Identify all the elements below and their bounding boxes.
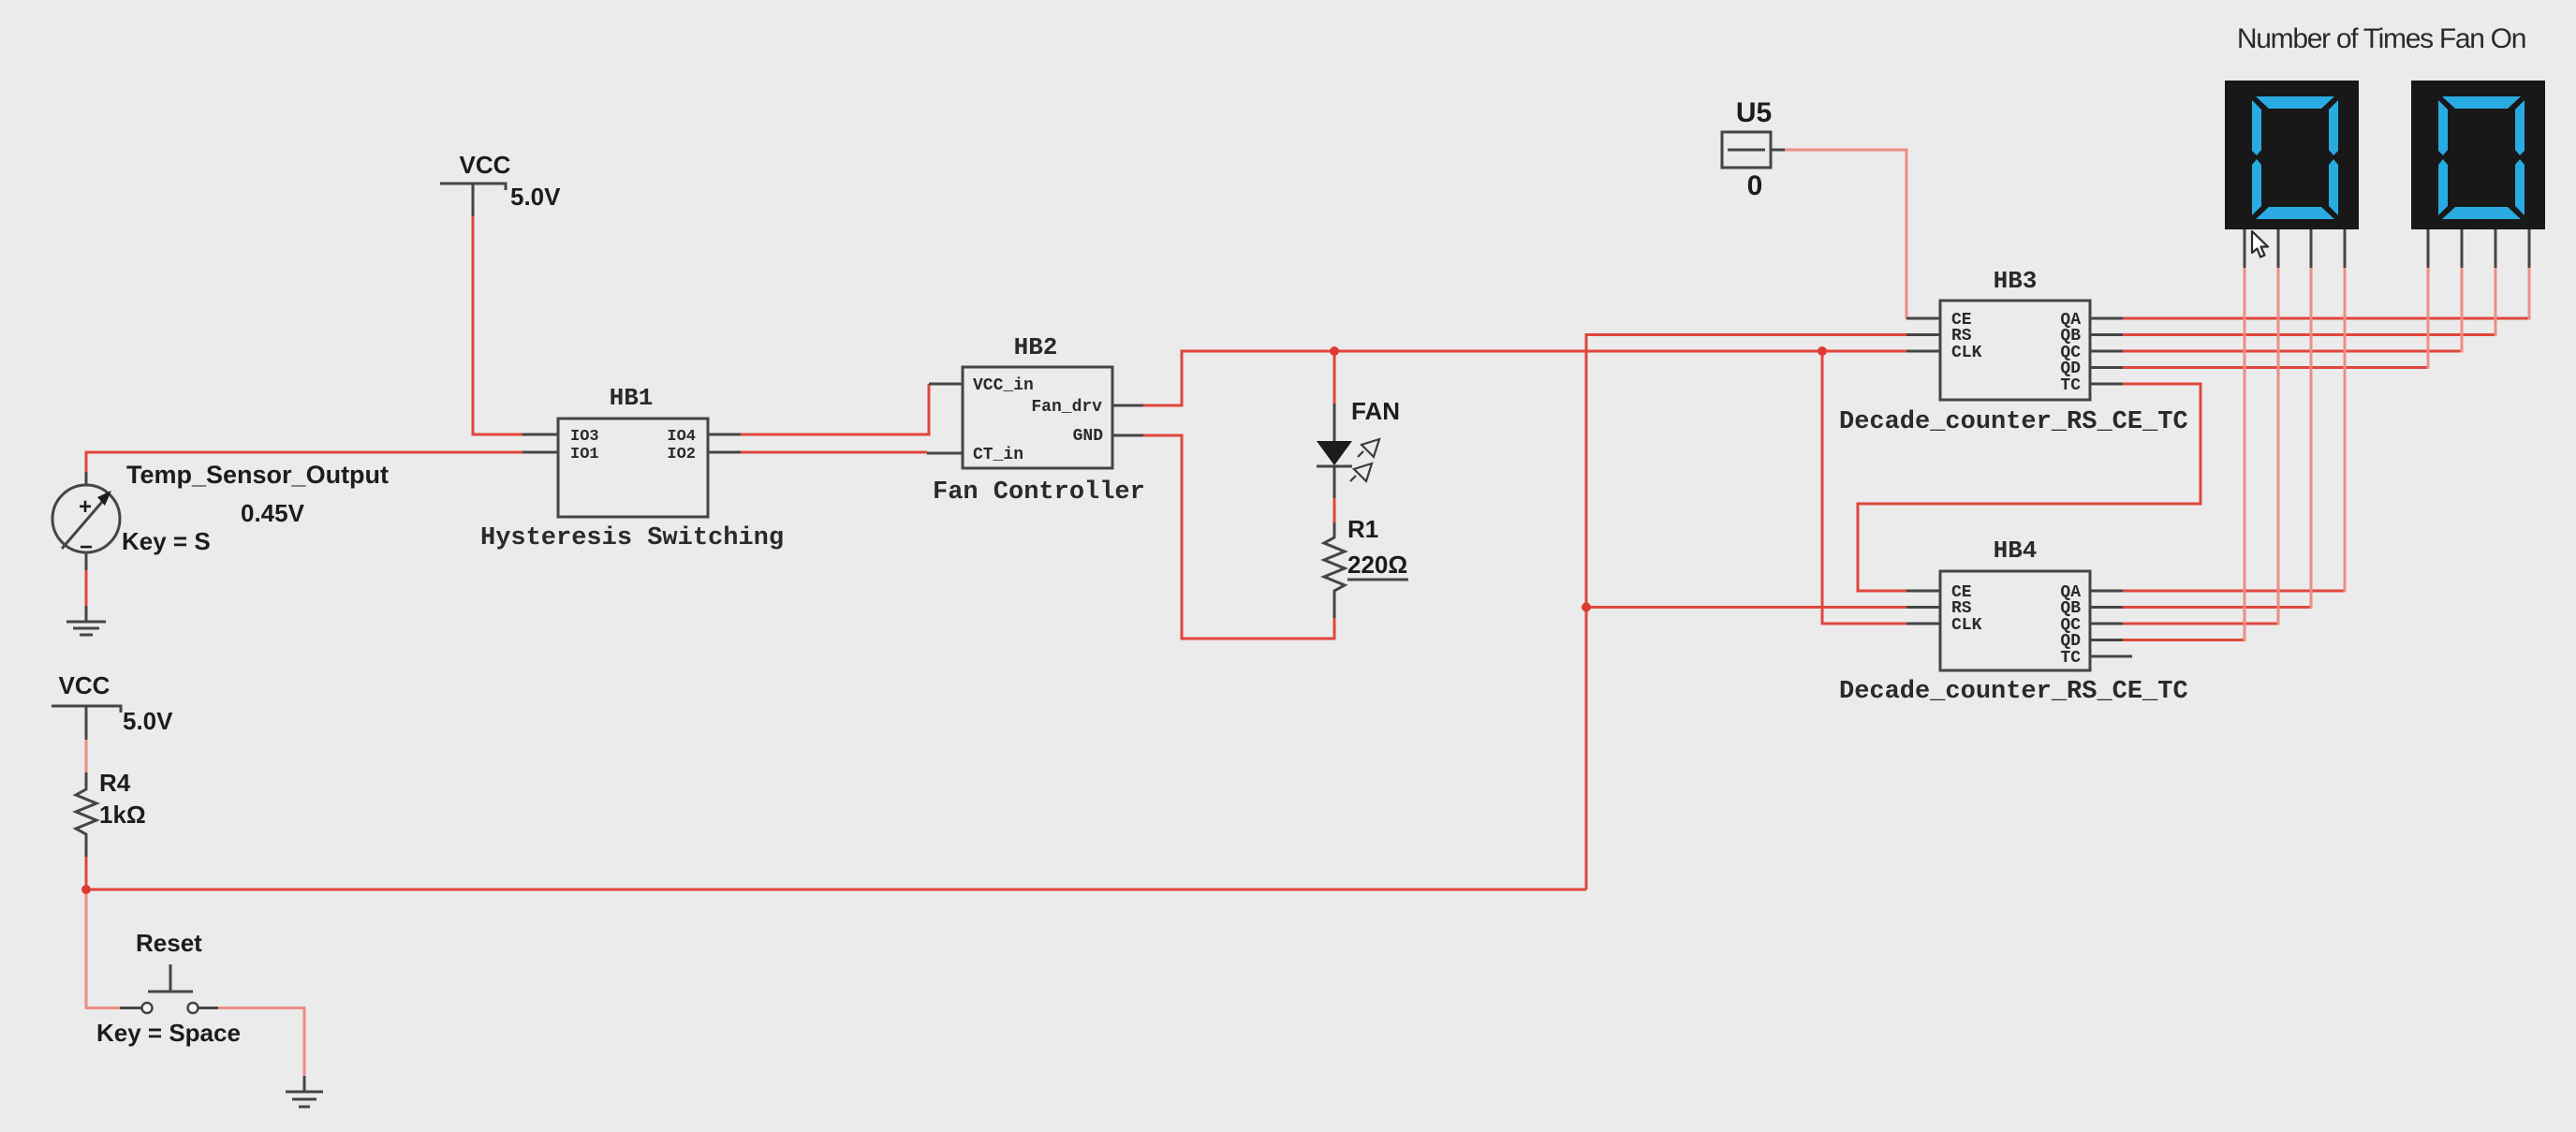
svg-text:QD: QD — [2060, 360, 2081, 378]
svg-text:IO2: IO2 — [667, 446, 696, 463]
svg-text:Fan Controller: Fan Controller — [933, 478, 1145, 507]
svg-text:Key = Space: Key = Space — [96, 1019, 241, 1047]
svg-text:0.45V: 0.45V — [241, 499, 305, 527]
svg-text:R4: R4 — [99, 769, 131, 797]
svg-text:CLK: CLK — [1951, 344, 1982, 362]
svg-text:RS: RS — [1951, 599, 1972, 618]
svg-text:U5: U5 — [1736, 97, 1772, 128]
svg-text:FAN: FAN — [1351, 397, 1400, 425]
svg-text:Fan_drv: Fan_drv — [1031, 398, 1102, 417]
svg-text:+: + — [79, 494, 92, 520]
svg-text:HB3: HB3 — [1994, 267, 2038, 295]
svg-text:TC: TC — [2060, 376, 2081, 395]
svg-text:1kΩ: 1kΩ — [99, 801, 146, 829]
svg-text:RS: RS — [1951, 327, 1972, 345]
svg-text:5.0V: 5.0V — [510, 183, 561, 211]
svg-text:CLK: CLK — [1951, 616, 1982, 635]
svg-text:QD: QD — [2060, 632, 2081, 651]
svg-text:220Ω: 220Ω — [1347, 551, 1407, 579]
svg-text:Hysteresis Switching: Hysteresis Switching — [480, 524, 784, 552]
svg-text:HB1: HB1 — [610, 384, 654, 412]
svg-text:Key = S: Key = S — [122, 527, 211, 555]
svg-text:VCC_in: VCC_in — [973, 376, 1034, 395]
svg-text:IO1: IO1 — [570, 446, 599, 463]
svg-text:IO4: IO4 — [667, 428, 696, 446]
svg-text:HB2: HB2 — [1014, 333, 1058, 361]
svg-text:TC: TC — [2060, 649, 2081, 668]
svg-text:GND: GND — [1073, 427, 1104, 446]
svg-text:5.0V: 5.0V — [123, 707, 173, 735]
svg-text:VCC: VCC — [59, 671, 110, 699]
svg-text:Decade_counter_RS_CE_TC: Decade_counter_RS_CE_TC — [1839, 408, 2188, 436]
svg-text:VCC: VCC — [460, 151, 511, 179]
svg-text:CT_in: CT_in — [973, 446, 1023, 464]
svg-text:R1: R1 — [1347, 515, 1378, 543]
svg-text:0: 0 — [1747, 170, 1763, 201]
svg-text:QB: QB — [2060, 327, 2081, 345]
svg-text:Temp_Sensor_Output: Temp_Sensor_Output — [126, 461, 389, 489]
svg-text:−: − — [80, 535, 93, 560]
svg-text:IO3: IO3 — [570, 428, 599, 446]
svg-text:HB4: HB4 — [1994, 537, 2038, 565]
svg-text:Decade_counter_RS_CE_TC: Decade_counter_RS_CE_TC — [1839, 678, 2188, 706]
svg-text:Reset: Reset — [136, 929, 202, 957]
svg-text:QB: QB — [2060, 599, 2081, 618]
svg-text:Number of Times Fan On: Number of Times Fan On — [2237, 23, 2525, 54]
